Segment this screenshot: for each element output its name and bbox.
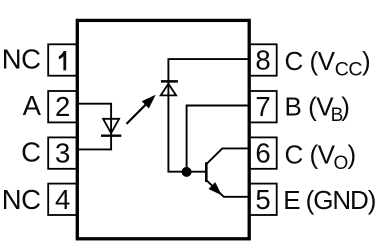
svg-text:4: 4 [55, 184, 70, 215]
svg-text:NC: NC [2, 184, 41, 215]
svg-text:2: 2 [55, 91, 70, 122]
svg-text:NC: NC [2, 43, 41, 74]
svg-text:7: 7 [255, 91, 270, 122]
svg-text:A: A [23, 90, 42, 121]
svg-text:6: 6 [255, 138, 270, 169]
svg-text:C: C [21, 136, 40, 167]
svg-text:E (GND): E (GND) [283, 185, 375, 215]
svg-text:3: 3 [55, 138, 70, 169]
svg-text:5: 5 [255, 184, 270, 215]
svg-text:8: 8 [255, 45, 270, 76]
